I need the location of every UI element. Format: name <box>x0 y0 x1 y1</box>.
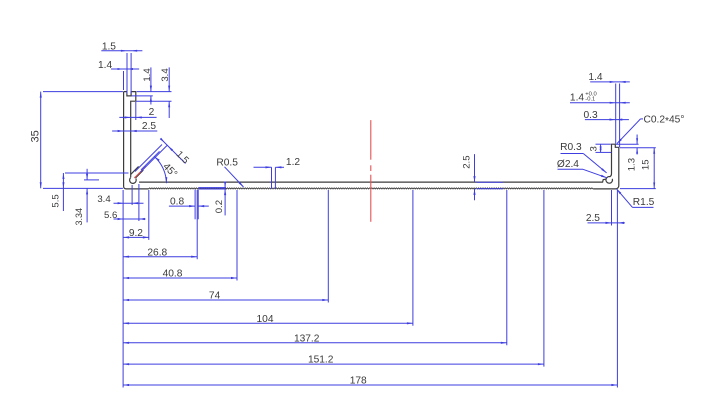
base bottom right and right wall outline <box>593 144 619 189</box>
dim 1.5 flute slot width <box>161 139 186 164</box>
dim 1.4 with tolerance <box>570 102 630 104</box>
svg-text:40.8: 40.8 <box>163 269 183 280</box>
leader R0.5 serration radius <box>225 167 244 187</box>
svg-text:1.4: 1.4 <box>142 68 153 82</box>
svg-text:3.34: 3.34 <box>74 208 84 226</box>
extension line for 151.2 <box>543 190 545 367</box>
svg-text:178: 178 <box>350 376 367 387</box>
screw flute lower edge 45deg <box>136 170 144 178</box>
extension line for 26.8 <box>196 190 198 259</box>
svg-text:1.4: 1.4 <box>98 60 112 71</box>
svg-text:104: 104 <box>257 314 274 325</box>
dim 2.5 base thickness <box>474 154 476 182</box>
extension line for 137.2 <box>506 190 508 345</box>
svg-text:9.2: 9.2 <box>129 228 143 239</box>
dim 1.4 left prong <box>111 68 139 70</box>
svg-text:2.5: 2.5 <box>142 121 156 132</box>
svg-text:0.3: 0.3 <box>584 110 598 121</box>
dim 0.8 serration pitch <box>169 205 195 207</box>
svg-text:74: 74 <box>209 291 221 302</box>
profile left wall outer face and bottom-left corner <box>124 92 149 189</box>
dim 3 vertical lip <box>600 144 602 152</box>
dim 2 step width <box>119 116 156 118</box>
dim 5.6 base start <box>114 218 146 220</box>
right top extension lines <box>615 84 617 144</box>
svg-text:-0.1: -0.1 <box>585 97 595 103</box>
svg-text:2.5: 2.5 <box>586 213 600 224</box>
profile left wall outline <box>124 92 136 177</box>
extension lines right of wall top <box>137 91 172 93</box>
dim 1.2 <box>271 167 273 189</box>
dim 0.3 <box>585 119 629 121</box>
right long extension line <box>616 190 618 388</box>
svg-text:2: 2 <box>149 107 155 118</box>
svg-text:Ø2.4: Ø2.4 <box>557 159 579 170</box>
leader C0.2x45 chamfer <box>641 118 644 120</box>
svg-text:1.4: 1.4 <box>570 92 584 103</box>
red vertical centerline <box>370 120 372 160</box>
svg-text:5.6: 5.6 <box>104 210 117 221</box>
dim 3.4 vertical top block height <box>168 67 170 91</box>
screw flute round pocket <box>130 177 137 183</box>
dim 151.2 <box>123 363 544 365</box>
dim 9.2 <box>123 236 149 238</box>
dim 1.4 vertical notch depth <box>150 67 152 91</box>
svg-text:26.8: 26.8 <box>147 248 167 259</box>
svg-text:R1.5: R1.5 <box>633 197 655 208</box>
dim 26.8 <box>123 256 197 258</box>
svg-text:1.3: 1.3 <box>627 158 638 171</box>
svg-text:5.5: 5.5 <box>51 194 62 207</box>
dim 0.2 serration depth <box>224 182 226 188</box>
svg-text:1.2: 1.2 <box>286 157 300 168</box>
flute extension lines 45deg <box>135 145 162 172</box>
left extension line for chain dims <box>122 190 124 388</box>
dim 3.4 flute x <box>114 202 144 204</box>
svg-text:151.2: 151.2 <box>308 355 334 366</box>
dim 3.34 vertical <box>86 169 88 180</box>
svg-text:3: 3 <box>589 146 600 151</box>
extension line for 9.2 <box>148 190 150 240</box>
svg-text:35: 35 <box>30 130 42 142</box>
45deg angle arc <box>155 157 167 184</box>
dim 104 <box>123 322 413 324</box>
dim 74 <box>123 299 328 301</box>
svg-text:3.4: 3.4 <box>160 68 171 82</box>
svg-text:137.2: 137.2 <box>294 333 320 344</box>
right wall screw pocket circle <box>606 177 613 184</box>
dim 40.8 <box>123 277 237 279</box>
svg-text:1.4: 1.4 <box>588 72 602 83</box>
svg-text:15: 15 <box>641 159 652 170</box>
dim 2.5 bottom right <box>588 222 626 224</box>
extension lines top-left <box>126 53 128 94</box>
svg-text:0.2: 0.2 <box>214 200 225 213</box>
dim 178 <box>123 384 617 386</box>
dim 2.5 wall thickness <box>112 130 157 132</box>
dim 1.5 notch width <box>101 50 142 52</box>
dim 137.2 <box>123 342 507 344</box>
extension line for 74 <box>327 190 329 303</box>
svg-text:1.5: 1.5 <box>102 42 116 53</box>
dim 1.3 vertical <box>636 135 638 145</box>
svg-text:3.4: 3.4 <box>97 194 111 205</box>
extension line for 104 <box>412 190 414 326</box>
svg-text:2.5: 2.5 <box>462 155 473 168</box>
svg-text:R0.5: R0.5 <box>216 158 238 169</box>
svg-text:R0.3: R0.3 <box>560 142 582 153</box>
base top surface <box>139 179 605 182</box>
dim 35 overall height <box>40 92 42 189</box>
red flute axis mark <box>134 166 146 178</box>
serrated bottom surface <box>149 188 593 189</box>
extension line for 40.8 <box>236 190 238 281</box>
svg-text:0.8: 0.8 <box>170 197 184 208</box>
dim 1.4 right wall top <box>590 81 630 83</box>
dim 15 right wall height <box>653 148 655 189</box>
dim 5.5 vertical <box>62 173 64 211</box>
svg-text:C0.2*45°: C0.2*45° <box>644 115 685 128</box>
